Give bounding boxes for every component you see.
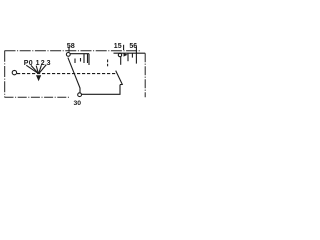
selector fan line 1 [36, 66, 38, 74]
staple leg b [131, 53, 133, 57]
selector fan line 2 [39, 65, 42, 73]
staple leg a [127, 53, 129, 61]
actuation arrow (down) [36, 75, 41, 81]
svg-text:56: 56 [129, 43, 137, 50]
svg-text:2: 2 [41, 60, 45, 67]
contact rail end leg [88, 54, 90, 65]
switch blade right (30 to 15) [116, 71, 123, 85]
terminal 58 (circle) [66, 53, 70, 57]
wire terminal 30 to right blade pivot [82, 85, 120, 95]
terminal 15 tail [120, 57, 122, 65]
enclosure left border [4, 51, 6, 97]
svg-text:15: 15 [114, 43, 122, 50]
alternate blade position dash 1 [107, 60, 109, 63]
terminal 30 (circle) [78, 93, 82, 97]
terminal 58 stub [68, 47, 70, 52]
enclosure top border [5, 50, 141, 52]
contact rail 15/56 (wire) [114, 52, 146, 54]
contact staple right leg [87, 54, 89, 63]
terminal 15 (circle) [118, 53, 121, 56]
wiper direction arrow (right) [124, 53, 128, 57]
terminal 56 line [135, 47, 137, 64]
selector fan line 0 [31, 65, 38, 73]
mechanical coupling line (dashed) [17, 73, 116, 75]
enclosure right border / wire down from corner [144, 53, 146, 97]
alternate blade position dash 2 [107, 64, 109, 67]
svg-text:58: 58 [67, 41, 75, 50]
svg-text:3: 3 [47, 60, 51, 67]
enclosure bottom border left segment [5, 96, 71, 98]
switch blade left (30 to 58) [68, 58, 80, 93]
svg-text:0: 0 [29, 60, 33, 67]
selector fan line 3 [39, 65, 46, 74]
terminal 15 stub [123, 45, 125, 50]
rotary switch common terminal (circle) [12, 70, 16, 74]
selector fan line P [26, 65, 38, 73]
svg-text:30: 30 [74, 100, 82, 107]
contact staple left leg [83, 54, 85, 63]
contact hook 2 [80, 58, 82, 62]
contact hook 1 [74, 59, 76, 64]
svg-text:1: 1 [36, 60, 40, 67]
contact rail 58 (wire) [70, 53, 89, 55]
